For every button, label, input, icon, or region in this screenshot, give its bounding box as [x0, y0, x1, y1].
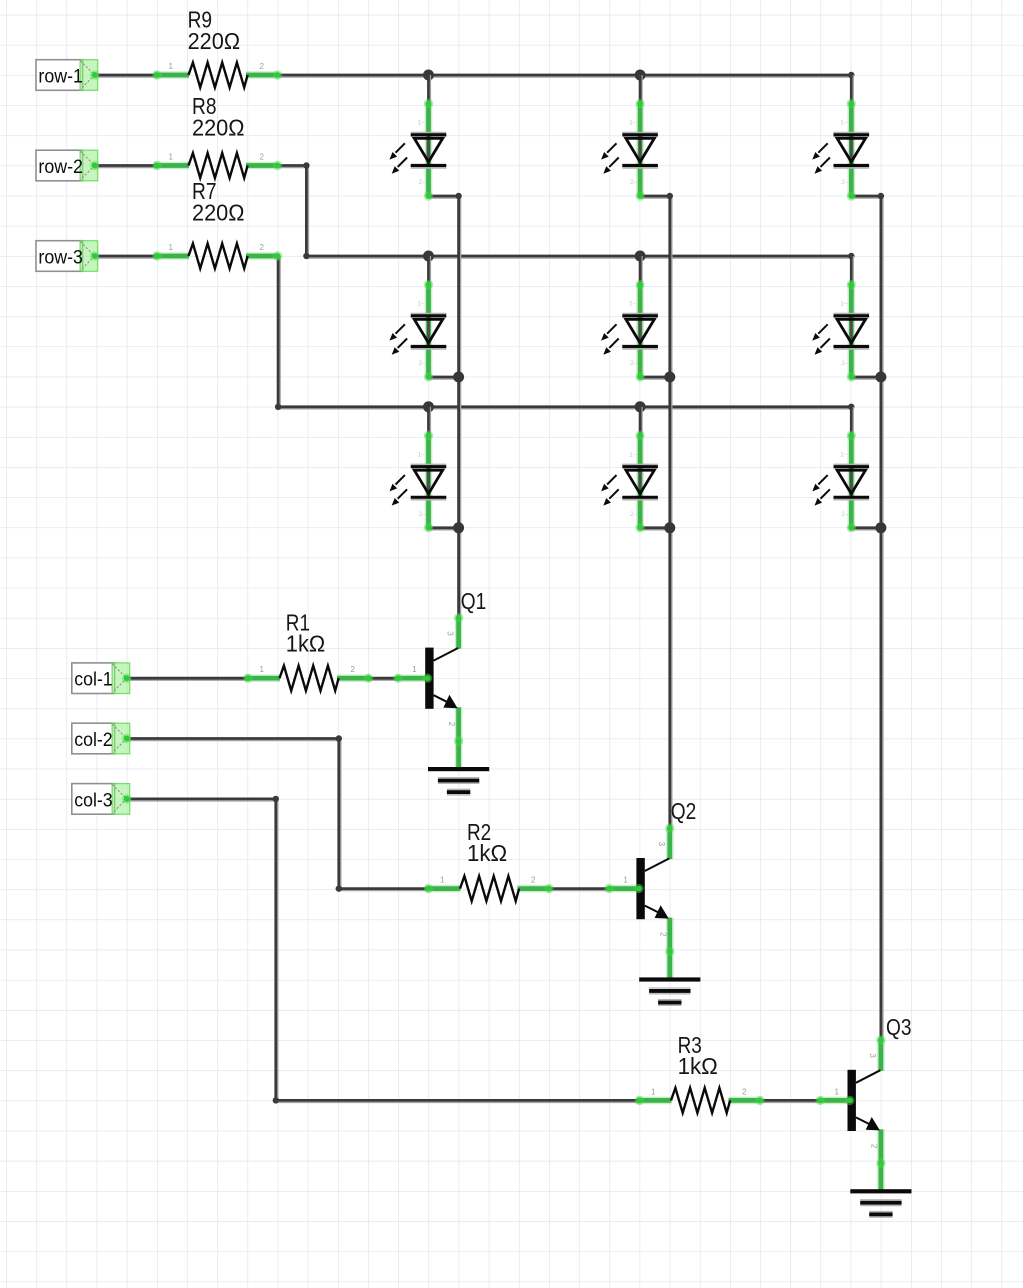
wire col-1 label to R1: [127, 678, 248, 680]
wire col-3 label to bendpoint: [127, 799, 276, 801]
LED LED3 emission arrow 1: [390, 475, 405, 491]
svg-text:1kΩ: 1kΩ: [678, 1053, 718, 1079]
svg-text:2: 2: [742, 1087, 747, 1096]
wire col-3 to R3: [276, 1100, 640, 1102]
transistor Q2 base terminal: [604, 884, 643, 893]
svg-text:2‒: 2‒: [630, 179, 638, 186]
svg-text:1kΩ: 1kΩ: [286, 631, 325, 657]
svg-text:col-1: col-1: [74, 669, 113, 691]
LED LED6 triangle: [626, 470, 654, 494]
junction row-1 bus / LED r1c2: [635, 70, 646, 81]
LED LED5 pin legs: [636, 285, 644, 378]
LED LED8 internal lead: [850, 316, 853, 346]
wire row-1 label to R9: [95, 75, 158, 77]
junction column-1 / row-2 cathode: [453, 372, 464, 383]
LED LED1 emission arrow 1: [390, 143, 405, 159]
resistor R2 pin legs: [426, 885, 551, 893]
LED LED4 pin legs: [636, 104, 644, 197]
LED LED6 anode terminal: [635, 431, 644, 440]
svg-text:2: 2: [260, 153, 265, 162]
ground for Q3 emitter: [850, 1189, 911, 1217]
net label row-2: [36, 150, 99, 181]
transistor Q1 collector leg: [455, 618, 463, 649]
wire row-2 bus: [306, 256, 851, 258]
LED LED7 emission arrow 1: [812, 143, 827, 159]
svg-text:row-1: row-1: [38, 65, 83, 87]
wire col-3 vertical drop: [276, 799, 278, 1101]
LED LED3 pin legs: [425, 435, 433, 528]
LED LED5 cathode terminal: [635, 372, 644, 381]
transistor Q2 emitter line with arrow: [645, 905, 669, 918]
svg-text:Q1: Q1: [461, 588, 487, 614]
LED LED2 pin legs: [425, 285, 433, 378]
LED LED1 anode bar: [411, 133, 447, 135]
svg-text:2‒: 2‒: [630, 360, 638, 367]
LED LED4 emission arrow 2: [603, 158, 618, 174]
svg-text:3: 3: [446, 631, 455, 636]
svg-text:1: 1: [835, 1087, 840, 1096]
LED LED9 anode terminal: [847, 431, 856, 440]
ground for Q2 emitter: [639, 977, 700, 1005]
LED LED5 cathode bar: [622, 347, 658, 349]
LED LED5 emission arrow 1: [601, 324, 616, 340]
LED LED8 anode wire stub: [851, 256, 853, 285]
transistor Q1 base leg: [398, 674, 432, 682]
bendpoint col-2 corner: [336, 735, 342, 741]
svg-text:1: 1: [651, 1087, 656, 1096]
bendpoint col-3 corner: [273, 796, 279, 802]
LED LED1 cathode terminal: [424, 191, 433, 200]
resistor R3 pin 2 terminal: [755, 1096, 764, 1105]
svg-text:Q3: Q3: [886, 1014, 912, 1040]
junction column-1 / row-3 cathode: [453, 522, 464, 533]
bendpoint row-1 bus right end: [848, 72, 854, 78]
wire R8 to bendpoint: [278, 166, 307, 168]
svg-text:2‒: 2‒: [419, 511, 427, 518]
resistor R3 pin legs: [637, 1097, 762, 1105]
LED LED4 cathode terminal: [635, 191, 644, 200]
LED LED3 anode wire stub: [429, 407, 431, 436]
LED LED8 cathode terminal: [847, 372, 856, 381]
LED LED1 internal lead: [427, 135, 430, 165]
wire row-3 vertical drop: [278, 256, 280, 407]
LED LED1 triangle: [414, 138, 442, 162]
wire LED r2c1 cathode jog: [429, 377, 459, 379]
LED LED6 emission arrow 1: [601, 475, 616, 491]
resistor R7 pin 1 terminal: [152, 251, 161, 260]
LED LED9 anode wire stub: [851, 407, 853, 436]
LED LED6 internal lead: [639, 467, 642, 497]
LED LED9 internal lead: [850, 467, 853, 497]
LED LED2 emission arrow 2: [392, 339, 407, 355]
LED LED7 pin legs: [847, 104, 855, 197]
transistor Q2 base bar: [636, 858, 644, 919]
LED LED9 cathode terminal: [847, 523, 856, 532]
LED LED8 anode terminal: [847, 280, 856, 289]
wire LED r3c1 cathode jog: [429, 528, 459, 530]
svg-text:2: 2: [447, 722, 456, 727]
LED LED9 pin legs: [847, 435, 855, 528]
transistor Q2 collector terminal: [665, 823, 674, 832]
transistor Q1 base bar: [425, 648, 433, 709]
LED LED6 emission arrow 2: [603, 489, 618, 505]
LED LED9 triangle: [837, 470, 865, 494]
transistor Q3 collector leg: [877, 1040, 885, 1071]
bendpoint col-2 bottom corner: [336, 885, 342, 891]
wire LED r1c2 cathode jog: [640, 196, 670, 198]
LED LED6 cathode bar: [622, 497, 658, 499]
transistor Q2 emitter leg: [666, 918, 674, 982]
wire row-1 bus: [278, 75, 852, 77]
LED LED7 anode bar: [834, 133, 870, 135]
LED LED6 cathode terminal: [635, 523, 644, 532]
junction row-2 bus / LED r2c2: [635, 251, 646, 262]
LED LED3 internal lead: [427, 467, 430, 497]
LED LED9 cathode bar: [834, 497, 870, 499]
svg-text:col-3: col-3: [74, 789, 113, 811]
LED LED9 anode bar: [834, 464, 870, 466]
transistor Q1 emitter line with arrow: [434, 695, 458, 708]
LED LED7 emission arrow 2: [815, 158, 830, 174]
resistor R9 pin 1 terminal: [152, 70, 161, 79]
resistor R9 pin legs: [154, 71, 279, 79]
bendpoint row-2 jog top: [303, 162, 309, 168]
LED LED5 triangle: [626, 319, 654, 343]
LED LED8 emission arrow 2: [815, 339, 830, 355]
LED LED6 anode wire stub: [640, 407, 642, 436]
LED LED4 cathode bar: [622, 166, 658, 168]
resistor R2 pin 2 terminal: [544, 884, 553, 893]
svg-text:1: 1: [169, 243, 174, 252]
resistor R2 pin 1 terminal: [424, 884, 433, 893]
wire R2 to Q2 base: [549, 889, 610, 891]
LED LED1 anode wire stub: [429, 75, 431, 104]
resistor R2 body: [460, 876, 519, 901]
svg-text:1‒: 1‒: [840, 120, 848, 127]
resistor R1 pin 2 terminal: [364, 674, 373, 683]
transistor Q3 emitter terminal: [876, 1159, 885, 1168]
LED LED5 anode terminal: [635, 280, 644, 289]
net label row-1: [36, 60, 99, 91]
bendpoint row-2 bus right end: [848, 253, 854, 259]
resistor R9 pin 2 terminal: [273, 70, 282, 79]
LED LED9 emission arrow 1: [812, 475, 827, 491]
LED LED9 emission arrow 2: [815, 489, 830, 505]
LED LED4 internal lead: [639, 135, 642, 165]
transistor Q3 base bar: [848, 1070, 856, 1131]
LED LED3 cathode terminal: [424, 523, 433, 532]
junction row-2 bus / LED r2c1: [423, 251, 434, 262]
svg-text:2‒: 2‒: [841, 360, 849, 367]
svg-text:1‒: 1‒: [418, 301, 426, 308]
bendpoint row-3 bus right end: [848, 404, 854, 410]
LED LED4 anode terminal: [635, 99, 644, 108]
wire col-2 label to bendpoint: [127, 739, 339, 741]
svg-text:2‒: 2‒: [841, 179, 849, 186]
resistor R8 pin 2 terminal: [273, 161, 282, 170]
LED LED3 triangle: [414, 470, 442, 494]
resistor R3 body: [671, 1088, 730, 1113]
wire col-2 vertical drop: [339, 739, 341, 889]
transistor Q2 collector leg: [666, 828, 674, 859]
svg-text:2‒: 2‒: [630, 511, 638, 518]
resistor R1 pin 1 terminal: [243, 674, 252, 683]
junction row-1 bus / LED r1c1: [423, 70, 434, 81]
svg-text:1‒: 1‒: [418, 120, 426, 127]
resistor R8 pin 1 terminal: [152, 161, 161, 170]
junction row-3 bus / LED r3c1: [423, 401, 434, 412]
LED LED2 emission arrow 1: [390, 324, 405, 340]
resistor R7 pin 2 terminal: [273, 251, 282, 260]
svg-text:2: 2: [260, 243, 265, 252]
resistor R1 body: [280, 666, 339, 691]
svg-text:2: 2: [351, 665, 356, 674]
transistor Q3 collector terminal: [876, 1035, 885, 1044]
svg-text:3: 3: [657, 842, 666, 847]
LED LED4 anode wire stub: [640, 75, 642, 104]
LED LED2 cathode bar: [411, 347, 447, 349]
net label col-3: [72, 784, 132, 815]
ground for Q1 emitter: [428, 767, 489, 795]
wire row-2 vertical jog: [306, 166, 308, 257]
wire row-3 label to R7: [95, 256, 158, 258]
svg-text:2‒: 2‒: [419, 360, 427, 367]
svg-text:Q2: Q2: [671, 798, 697, 824]
wire row-2 label to R8: [95, 166, 158, 168]
svg-text:1: 1: [169, 62, 174, 71]
LED LED7 triangle: [837, 138, 865, 162]
bendpoint row-2 jog bottom: [303, 253, 309, 259]
wire row-3 bus: [278, 407, 851, 409]
svg-text:1‒: 1‒: [840, 301, 848, 308]
LED LED5 anode bar: [622, 314, 658, 316]
wire LED r2c2 cathode jog: [640, 377, 670, 379]
LED LED3 cathode bar: [411, 497, 447, 499]
LED LED2 cathode terminal: [424, 372, 433, 381]
wire LED r3c2 cathode jog: [640, 528, 670, 530]
svg-text:1: 1: [623, 876, 628, 885]
wire LED r3c3 cathode jog: [851, 528, 881, 530]
LED LED4 emission arrow 1: [601, 143, 616, 159]
resistor R8 pin legs: [154, 162, 279, 170]
transistor Q3 emitter leg: [877, 1129, 885, 1193]
svg-text:1: 1: [169, 153, 174, 162]
net label col-2: [72, 723, 132, 754]
bendpoint row-3 drop bottom: [275, 404, 281, 410]
svg-text:2‒: 2‒: [419, 179, 427, 186]
resistor R3 pin 1 terminal: [635, 1096, 644, 1105]
transistor Q2 collector line: [645, 858, 670, 871]
svg-text:2‒: 2‒: [841, 511, 849, 518]
resistor R1 pin legs: [245, 674, 370, 682]
transistor Q3 collector line: [856, 1070, 881, 1083]
LED LED7 cathode terminal: [847, 191, 856, 200]
svg-text:220Ω: 220Ω: [192, 200, 245, 226]
wire R1 to Q1 base: [368, 678, 398, 680]
bendpoint column-2 top corner: [667, 193, 673, 199]
LED LED7 anode terminal: [847, 99, 856, 108]
svg-text:row-2: row-2: [38, 156, 83, 178]
wire col-2 to R2: [339, 889, 429, 891]
LED LED8 triangle: [837, 319, 865, 343]
LED LED2 anode bar: [411, 314, 447, 316]
LED LED8 pin legs: [847, 285, 855, 378]
transistor Q2 emitter terminal: [665, 947, 674, 956]
LED LED7 anode wire stub: [851, 75, 853, 104]
LED LED7 internal lead: [850, 135, 853, 165]
transistor Q1 base terminal: [393, 674, 432, 683]
svg-text:2: 2: [260, 62, 265, 71]
svg-text:3: 3: [868, 1053, 877, 1058]
svg-text:1kΩ: 1kΩ: [467, 840, 507, 866]
LED LED2 internal lead: [427, 316, 430, 346]
svg-text:1: 1: [440, 876, 445, 885]
transistor Q1 emitter leg: [455, 707, 463, 771]
net label col-1: [72, 663, 132, 694]
wire column-3 cathode line to Q3 collector: [881, 196, 883, 1040]
wire LED r2c3 cathode jog: [851, 377, 881, 379]
svg-text:1‒: 1‒: [629, 451, 637, 458]
net label row-3: [36, 241, 99, 272]
LED LED1 emission arrow 2: [392, 158, 407, 174]
transistor Q2 base leg: [609, 885, 643, 893]
LED LED3 emission arrow 2: [392, 489, 407, 505]
bendpoint column-1 top corner: [455, 193, 461, 199]
LED LED5 internal lead: [639, 316, 642, 346]
LED LED1 pin legs: [425, 104, 433, 197]
svg-text:row-3: row-3: [38, 246, 83, 268]
svg-text:2: 2: [531, 876, 536, 885]
svg-text:220Ω: 220Ω: [192, 114, 245, 140]
svg-text:2: 2: [869, 1144, 878, 1149]
LED LED8 emission arrow 1: [812, 324, 827, 340]
resistor R8 body: [189, 153, 248, 178]
LED LED3 anode bar: [411, 464, 447, 466]
transistor Q1 collector terminal: [454, 613, 463, 622]
junction column-3 / row-3 cathode: [875, 522, 886, 533]
LED LED7 cathode bar: [834, 166, 870, 168]
junction row-3 bus / LED r3c2: [635, 401, 646, 412]
LED LED5 anode wire stub: [640, 256, 642, 285]
svg-text:col-2: col-2: [74, 729, 113, 751]
junction column-2 / row-3 cathode: [664, 522, 675, 533]
svg-text:1: 1: [260, 665, 265, 674]
LED LED8 anode bar: [834, 314, 870, 316]
LED LED2 anode wire stub: [429, 256, 431, 285]
resistor R9 body: [189, 63, 248, 88]
bendpoint col-3 bottom corner: [273, 1097, 279, 1103]
transistor Q3 base terminal: [815, 1096, 854, 1105]
transistor Q1 collector line: [434, 648, 459, 661]
junction column-3 / row-2 cathode: [875, 372, 886, 383]
wire LED r1c3 cathode jog: [851, 196, 881, 198]
wire R3 to Q3 base: [760, 1100, 821, 1102]
transistor Q3 emitter line with arrow: [856, 1117, 880, 1130]
LED LED4 anode bar: [622, 133, 658, 135]
wire column-1 cathode line to Q1 collector: [459, 196, 461, 618]
LED LED6 pin legs: [636, 435, 644, 528]
LED LED1 cathode bar: [411, 166, 447, 168]
LED LED3 anode terminal: [424, 431, 433, 440]
resistor R7 body: [189, 244, 248, 269]
transistor Q3 base leg: [820, 1097, 854, 1105]
LED LED1 anode terminal: [424, 99, 433, 108]
LED LED6 anode bar: [622, 464, 658, 466]
svg-text:1‒: 1‒: [629, 301, 637, 308]
svg-text:1‒: 1‒: [629, 120, 637, 127]
svg-text:220Ω: 220Ω: [188, 28, 241, 54]
LED LED2 anode terminal: [424, 280, 433, 289]
junction column-2 / row-2 cathode: [664, 372, 675, 383]
wire column-2 cathode line to Q2 collector: [670, 196, 672, 828]
wire LED r1c1 cathode jog: [429, 196, 459, 198]
LED LED5 emission arrow 2: [603, 339, 618, 355]
svg-text:1‒: 1‒: [840, 451, 848, 458]
svg-text:2: 2: [658, 932, 667, 937]
svg-text:1‒: 1‒: [418, 451, 426, 458]
bendpoint column-3 top corner: [878, 193, 884, 199]
resistor R7 pin legs: [154, 252, 279, 260]
transistor Q1 emitter terminal: [454, 736, 463, 745]
LED LED4 triangle: [626, 138, 654, 162]
LED LED2 triangle: [414, 319, 442, 343]
LED LED8 cathode bar: [834, 347, 870, 349]
svg-text:1: 1: [412, 665, 417, 674]
